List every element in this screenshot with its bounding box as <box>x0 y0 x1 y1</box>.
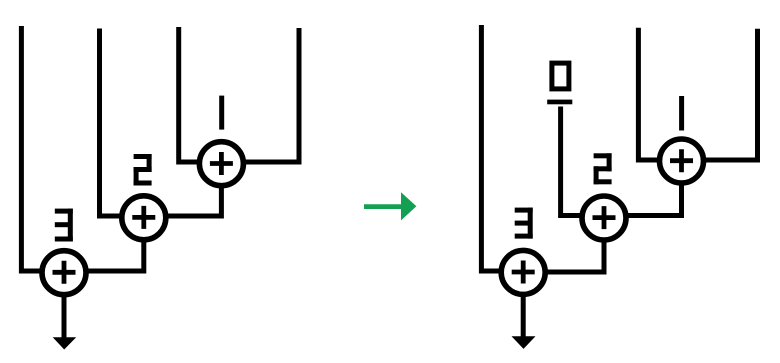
label 0 constant (right diagram) <box>547 63 572 104</box>
arrowhead (left diagram) <box>53 337 76 349</box>
adder 2 (right diagram) <box>582 196 626 240</box>
label 1 (right diagram) <box>679 96 684 131</box>
wire input 3 into adder 1 left <box>179 27 199 162</box>
adder 3 (left diagram) <box>42 251 86 295</box>
label 3 (right diagram) <box>515 208 533 239</box>
adder 1 (left diagram) <box>199 142 243 186</box>
wire input 4 into adder 1 right (right diagram) <box>704 29 758 160</box>
transform arrow (green) <box>364 192 416 220</box>
output wire with arrowhead (right diagram) <box>521 295 526 337</box>
wire input 4 into adder 1 right <box>244 28 299 162</box>
wire input 1 into adder 3 left (right diagram) <box>481 25 500 271</box>
arrowhead (right diagram) <box>512 336 536 349</box>
adder 1 (right diagram) <box>660 139 704 183</box>
label 1 (left diagram) <box>219 96 224 130</box>
wire input 3 into adder 1 left (right diagram) <box>638 28 659 160</box>
wire adder 2 output to adder 3 right (right diagram) <box>546 240 604 272</box>
wire adder 1 output to adder 2 right (right diagram) <box>627 183 682 216</box>
wire adder 1 output to adder 2 right <box>167 186 221 216</box>
wire input 1 into adder 3 left <box>21 26 41 271</box>
output wire with arrowhead (left diagram) <box>62 295 67 338</box>
adder 3 (right diagram) <box>501 250 545 294</box>
label 2 (right diagram) <box>594 153 612 184</box>
wire adder 2 output to adder 3 right <box>87 240 144 271</box>
label 3 (left diagram) <box>55 209 73 242</box>
label 2 (left diagram) <box>134 154 152 186</box>
wire input 2 into adder 2 left <box>100 29 123 217</box>
adder 2 (left diagram) <box>122 196 166 240</box>
wire zero stub into adder 2 left (right diagram) <box>561 107 582 216</box>
